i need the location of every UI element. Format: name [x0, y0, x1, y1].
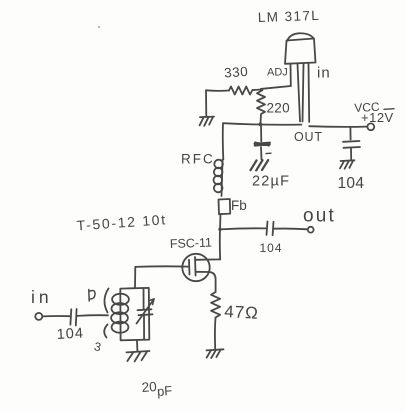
node B (rail/220/22uF junction) — [258, 122, 262, 126]
svg-text:RFC: RFC — [181, 152, 215, 167]
wire right rail to VCC — [309, 125, 367, 128]
svg-text:20pF: 20pF — [141, 378, 173, 400]
node A (330/220/ADJ junction) — [260, 88, 264, 92]
wire R1 right to node — [253, 89, 263, 92]
inductor L1 T-50-12 (loops) — [111, 294, 129, 333]
svg-text:LM 317L: LM 317L — [258, 8, 321, 25]
resistor R2 220 — [257, 91, 265, 123]
resistor R1 330 — [229, 87, 253, 95]
overline on V of +12V — [384, 108, 394, 111]
svg-text:FSC-11: FSC-11 — [170, 236, 213, 251]
wire below C3 plate — [260, 147, 263, 159]
ground G5 (under 22uF) — [251, 160, 269, 170]
wire FB to drain node — [219, 214, 222, 229]
primary link winding arcs — [104, 289, 108, 313]
pin OUT of U1 (middle, double stroke) — [298, 64, 304, 122]
terminal VCC (open circle) — [367, 123, 374, 130]
svg-text:ADJ: ADJ — [267, 67, 288, 79]
capacitor C1 104 (VCC bypass) — [343, 127, 360, 160]
svg-text:22µF: 22µF — [252, 174, 290, 190]
ground G2 (under R3) — [207, 349, 224, 358]
ground G1 — [200, 117, 214, 126]
svg-text:in: in — [31, 287, 53, 307]
node C (out tap junction) — [218, 228, 221, 231]
capacitor C3 22uF (electrolytic) — [255, 125, 272, 154]
capacitor C2 104 (out coupling) — [267, 222, 274, 236]
wire C5 to link winding — [77, 314, 108, 317]
svg-text:330: 330 — [224, 64, 249, 81]
pin ADJ of U1 — [290, 64, 292, 86]
svg-text:in: in — [317, 65, 331, 82]
wire drain node down to FET drain — [219, 229, 221, 259]
wire ADJ pin to junction — [262, 86, 291, 89]
wire down to ground left — [205, 91, 207, 117]
svg-text:OUT: OUT — [294, 130, 323, 144]
wire in terminal to C5 — [42, 315, 70, 317]
transistor Q1 FSC-11 (FET in circle) — [182, 254, 220, 292]
svg-text:104: 104 — [260, 241, 283, 255]
label n (turns mark) — [89, 290, 95, 302]
wire gate down to tank — [134, 267, 136, 288]
svg-text:3: 3 — [93, 339, 103, 354]
wire gate — [135, 265, 188, 268]
wire C2 to out terminal — [274, 228, 308, 231]
ground G4 (under C1) — [340, 160, 355, 168]
wire R3 to ground — [214, 318, 217, 349]
resistor R3 47ohm — [211, 292, 220, 318]
svg-text:Fb: Fb — [231, 198, 247, 213]
capacitor C4 20pF (variable) — [137, 288, 155, 340]
pin IN of U1 — [308, 64, 311, 122]
svg-text:47Ω: 47Ω — [224, 302, 260, 323]
tank circuit box (L / 20pF parallel) — [120, 288, 149, 340]
svg-text:T-50-12 10t: T-50-12 10t — [76, 211, 167, 233]
svg-text:220: 220 — [267, 101, 290, 116]
inductor RFC — [214, 160, 223, 197]
svg-text:104: 104 — [338, 175, 365, 192]
regulator U1 package (TO-92 outline) — [285, 33, 316, 64]
svg-text:+12V: +12V — [361, 110, 394, 125]
terminal out (open circle) — [308, 227, 314, 233]
svg-text:104: 104 — [56, 326, 84, 343]
terminal in (open circle) — [35, 313, 42, 320]
ground G3 (under tank) — [127, 351, 150, 361]
speck — [98, 26, 100, 28]
capacitor C5 104 (input coupling) — [70, 309, 76, 326]
ferrite bead FB (square) — [219, 199, 231, 214]
wire tank bottom to ground — [136, 340, 138, 351]
svg-text:out: out — [303, 206, 336, 227]
wire out tap — [220, 228, 266, 229]
wire left rail (OUT rail) — [223, 123, 302, 125]
wire left of R1 — [206, 89, 229, 92]
wire rail down to RFC — [222, 124, 225, 160]
